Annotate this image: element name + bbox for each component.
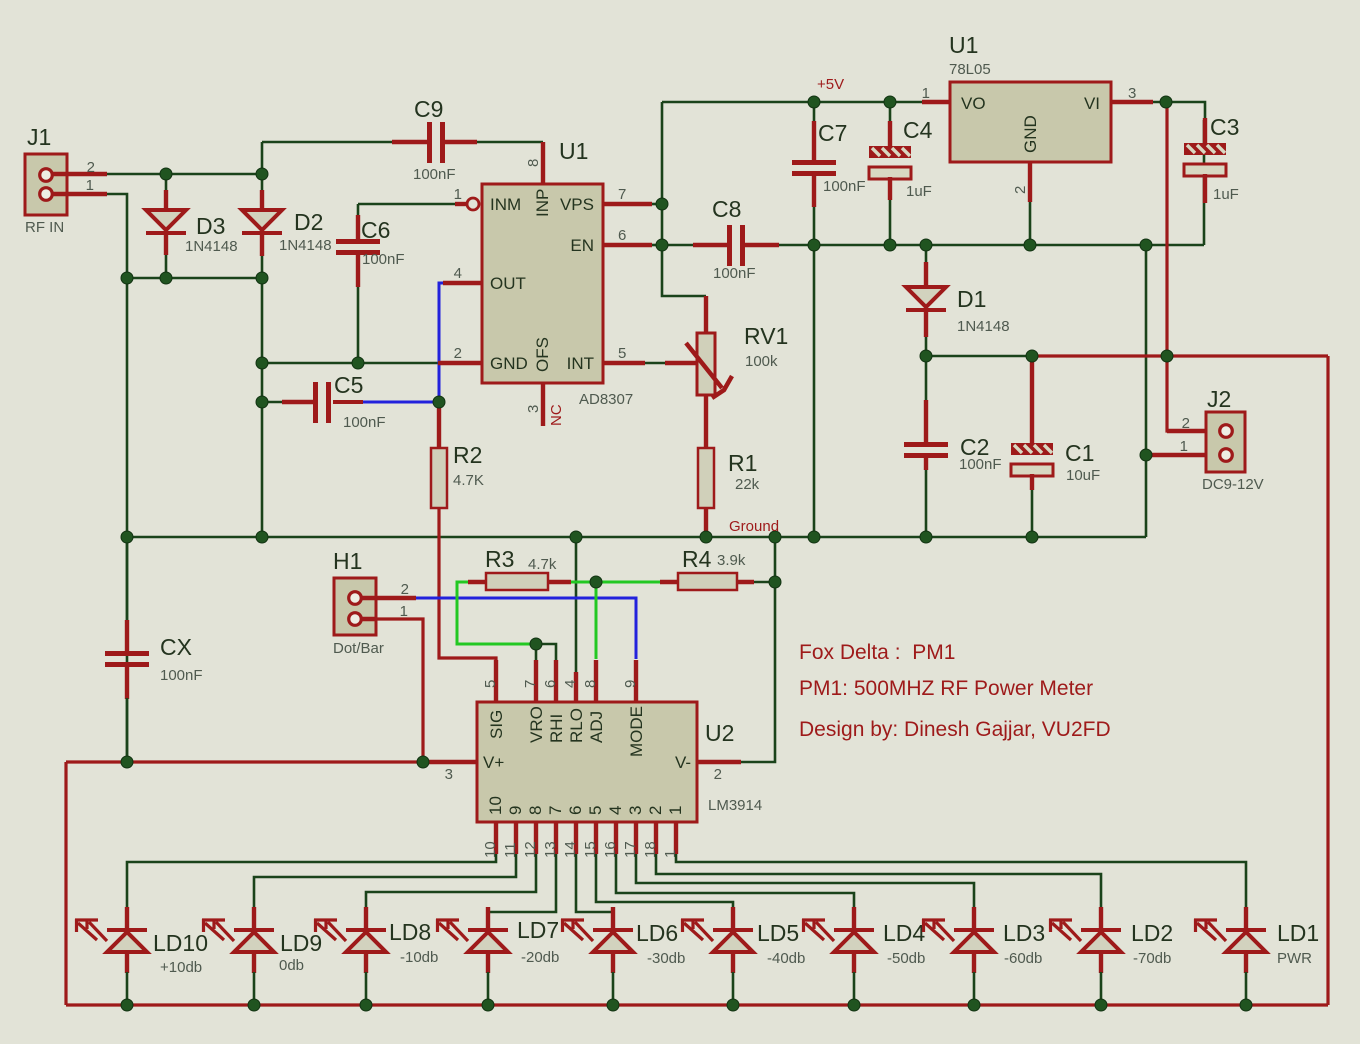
junction LED rail (613,1005) xyxy=(607,999,619,1011)
junction (127,762) xyxy=(121,756,133,768)
LD6 bottom lead xyxy=(611,952,615,973)
R3 left lead xyxy=(468,580,487,584)
wire LD7 to bottom rail xyxy=(487,972,490,1005)
junction (127,278) xyxy=(121,272,133,284)
capacitor C7 xyxy=(792,160,836,176)
U1 pin 1 lead xyxy=(455,202,466,206)
R4 left lead xyxy=(660,580,679,584)
svg-text:C9: C9 xyxy=(414,96,443,122)
78L05 pin 2 lead xyxy=(1028,162,1032,202)
D3 cathode lead xyxy=(164,233,168,255)
svg-text:100nF: 100nF xyxy=(362,251,405,268)
junction LED rail (488,1005) xyxy=(482,999,494,1011)
junction LED rail (1101,1005) xyxy=(1095,999,1107,1011)
LED LD1 xyxy=(1194,919,1266,952)
C7 bottom lead xyxy=(812,174,816,207)
svg-text:8: 8 xyxy=(525,159,542,167)
svg-text:GND: GND xyxy=(490,354,528,373)
RV1 wiper lead xyxy=(665,361,698,365)
C3 bottom lead xyxy=(1203,174,1207,203)
LD2 top lead xyxy=(1099,907,1103,930)
LED LD3 xyxy=(922,919,994,952)
svg-text:1: 1 xyxy=(454,186,462,203)
junction (706,537) xyxy=(700,531,712,543)
svg-text:J1: J1 xyxy=(27,124,51,150)
svg-text:LD2: LD2 xyxy=(1131,920,1173,946)
wire ADJ green drop xyxy=(595,582,598,659)
svg-text:5: 5 xyxy=(618,345,626,362)
svg-text:LD5: LD5 xyxy=(757,920,799,946)
RV1 wiper arrow xyxy=(686,343,732,398)
wire pin10 to LD10 xyxy=(127,854,496,908)
U2 bottom pin 11 lead xyxy=(514,822,518,854)
svg-text:VRO: VRO xyxy=(527,706,546,743)
svg-text:V+: V+ xyxy=(483,753,504,772)
CX top lead xyxy=(125,620,129,652)
svg-text:3: 3 xyxy=(445,766,453,783)
svg-text:DC9-12V: DC9-12V xyxy=(1202,476,1264,493)
svg-text:1N4148: 1N4148 xyxy=(279,237,332,254)
U2 V+ lead xyxy=(428,760,477,764)
wire CX top xyxy=(126,537,129,621)
wire H1 pin1 red drop xyxy=(376,619,423,762)
svg-text:1: 1 xyxy=(922,85,930,102)
svg-text:R4: R4 xyxy=(682,546,712,572)
junction (576,537) xyxy=(570,531,582,543)
svg-text:LD9: LD9 xyxy=(280,930,322,956)
svg-text:INP: INP xyxy=(533,189,552,217)
svg-text:10: 10 xyxy=(486,796,505,815)
wire D1 top stub xyxy=(925,245,928,263)
svg-text:2: 2 xyxy=(87,159,95,176)
wire C7 top stub xyxy=(813,102,816,122)
junction (127,537) xyxy=(121,531,133,543)
U1 pin 4 lead xyxy=(443,281,482,285)
wire +5V top rail xyxy=(662,101,922,104)
C3 top lead xyxy=(1203,118,1207,144)
U1 pin 1 bubble xyxy=(467,198,479,210)
svg-text:MODE: MODE xyxy=(627,706,646,757)
svg-text:1uF: 1uF xyxy=(1213,186,1239,203)
wire CX bottom xyxy=(126,698,129,763)
LD5 bottom lead xyxy=(731,952,735,973)
U2 V- lead xyxy=(697,760,741,764)
R1 top lead xyxy=(704,394,708,449)
wire C4 bottom stub xyxy=(889,199,892,245)
svg-text:3: 3 xyxy=(1128,85,1136,102)
wire pin17 to LD3 xyxy=(636,854,974,908)
wire J2 pin1 rail xyxy=(1145,245,1148,537)
svg-text:C5: C5 xyxy=(334,372,363,398)
wire VI to C3 node xyxy=(1152,102,1205,120)
junction (262,402) xyxy=(256,396,268,408)
RV1 top lead xyxy=(704,296,708,335)
wire U1 pin7 stub xyxy=(651,203,662,206)
junction (890,102) xyxy=(884,96,896,108)
junction LED rail (366,1005) xyxy=(360,999,372,1011)
capacitor CX xyxy=(105,651,149,667)
svg-text:LD8: LD8 xyxy=(389,919,431,945)
svg-text:U1: U1 xyxy=(559,138,588,164)
junction (814,245) xyxy=(808,239,820,251)
svg-text:4: 4 xyxy=(454,265,462,282)
H1 pin 2 lead xyxy=(360,596,416,600)
U2 top pin 4 lead xyxy=(574,672,578,702)
wire RLO to ground xyxy=(575,537,578,672)
svg-text:2: 2 xyxy=(646,806,665,815)
svg-text:RF IN: RF IN xyxy=(25,219,64,236)
svg-text:RHI: RHI xyxy=(547,714,566,743)
svg-text:PWR: PWR xyxy=(1277,950,1312,967)
wire D1 bottom stub xyxy=(925,336,928,356)
potentiometer RV1 body xyxy=(697,333,715,395)
svg-text:C8: C8 xyxy=(712,196,741,222)
wire pin12 to LD8 xyxy=(366,854,536,908)
junction (262,537) xyxy=(256,531,268,543)
R3 right lead xyxy=(548,580,571,584)
diode D2 xyxy=(242,210,282,233)
svg-text:C3: C3 xyxy=(1210,114,1239,140)
svg-text:-20db: -20db xyxy=(521,949,559,966)
U1 pin 5 lead xyxy=(603,361,645,365)
svg-text:ADJ: ADJ xyxy=(587,711,606,743)
bar-driver U2 LM3914 body xyxy=(477,702,697,822)
C5 left lead xyxy=(282,400,317,404)
diode D3 xyxy=(146,210,186,233)
wire V+ red row xyxy=(66,760,477,763)
svg-text:Fox Delta : PM1: Fox Delta : PM1 xyxy=(799,641,955,664)
wire red DC rail xyxy=(1032,354,1328,357)
U2 bottom pin 16 lead xyxy=(614,822,618,854)
junction (1167,356) xyxy=(1161,350,1173,362)
svg-text:6: 6 xyxy=(618,227,626,244)
C4 top lead xyxy=(888,121,892,147)
svg-text:LD10: LD10 xyxy=(153,930,208,956)
svg-text:R3: R3 xyxy=(485,546,514,572)
J1 pin 1 lead xyxy=(51,192,107,196)
regulator U1 78L05 body xyxy=(950,82,1111,162)
svg-text:PM1: 500MHZ RF Power Meter: PM1: 500MHZ RF Power Meter xyxy=(799,677,1093,700)
wire C6 bottom to GND row xyxy=(357,286,360,363)
wire C6 top corner xyxy=(357,204,360,216)
junction LED rail (733,1005) xyxy=(727,999,739,1011)
junction LED rail (1246,1005) xyxy=(1240,999,1252,1011)
svg-text:V-: V- xyxy=(675,753,691,772)
wire blue OUT vertical xyxy=(439,283,444,402)
wire C2 bottom stub xyxy=(925,469,928,537)
LD10 bottom lead xyxy=(125,952,129,973)
resistor R2 xyxy=(431,448,447,508)
D3 anode lead xyxy=(164,190,168,211)
svg-text:INT: INT xyxy=(567,354,594,373)
wire pin11 to LD9 xyxy=(254,854,516,908)
wire D1 to C2 run xyxy=(926,355,1032,358)
svg-text:3: 3 xyxy=(626,806,645,815)
svg-text:R2: R2 xyxy=(453,442,482,468)
junction (926,537) xyxy=(920,531,932,543)
svg-text:100nF: 100nF xyxy=(823,178,866,195)
capacitor C2 xyxy=(904,442,948,458)
wire D3 cathode stub xyxy=(165,254,168,278)
LED LD6 xyxy=(561,919,633,952)
C9 left lead xyxy=(392,140,428,144)
wire LD8 to bottom rail xyxy=(365,972,368,1005)
wire LD2 to bottom rail xyxy=(1100,972,1103,1005)
svg-text:7: 7 xyxy=(546,806,565,815)
wire V- up rail xyxy=(740,537,775,762)
svg-text:7: 7 xyxy=(618,186,626,203)
svg-text:7: 7 xyxy=(522,680,539,688)
wire pin14 to LD6 xyxy=(576,854,613,912)
svg-text:6: 6 xyxy=(566,806,585,815)
C4 bottom lead xyxy=(888,177,892,200)
capacitor C4 xyxy=(869,146,911,179)
wire LD10 to bottom rail xyxy=(126,972,129,1005)
U2 bottom pin 10 lead xyxy=(494,822,498,854)
wire LD9 to bottom rail xyxy=(253,972,256,1005)
svg-text:LM3914: LM3914 xyxy=(708,797,762,814)
wire LD5 to bottom rail xyxy=(732,972,735,1005)
D1 cathode lead xyxy=(924,310,928,337)
wire pin18 to LD2 xyxy=(656,854,1101,908)
LD6 top lead xyxy=(611,907,615,930)
LD9 top lead xyxy=(252,907,256,930)
capacitor C1 xyxy=(1011,443,1053,476)
svg-text:3: 3 xyxy=(525,405,542,413)
svg-text:LD3: LD3 xyxy=(1003,920,1045,946)
U2 bottom pin 18 lead xyxy=(654,822,658,854)
wire red left frame xyxy=(64,762,67,1005)
svg-text:100nF: 100nF xyxy=(160,667,203,684)
wire +5V vertical rail xyxy=(662,102,706,296)
wire D3 anode stub xyxy=(165,175,168,191)
wire C1 bottom stub xyxy=(1031,489,1034,537)
wire H1 pin2 blue xyxy=(415,598,636,659)
wire INM run xyxy=(358,203,464,206)
wire R3 right green xyxy=(570,581,596,584)
U2 top pin 7 lead xyxy=(534,660,538,702)
wire C9 to U1 pin8 xyxy=(476,141,543,144)
svg-text:2: 2 xyxy=(1012,186,1029,194)
78L05 pin 1 lead xyxy=(922,100,950,104)
junction (262,174) xyxy=(256,168,268,180)
svg-text:NC: NC xyxy=(548,404,565,426)
svg-text:3.9k: 3.9k xyxy=(717,552,746,569)
wire LD1 to bottom rail xyxy=(1245,972,1248,1005)
svg-text:R1: R1 xyxy=(728,450,757,476)
junction (775,537) xyxy=(769,531,781,543)
U2 top pin 9 lead xyxy=(634,660,638,702)
wire C4 top stub xyxy=(889,102,892,122)
C8 left lead xyxy=(693,243,728,247)
connector J2 xyxy=(1206,412,1245,472)
U1 pin 3 stub NC xyxy=(541,383,545,426)
svg-text:100nF: 100nF xyxy=(959,456,1002,473)
wire R3 left green loop xyxy=(457,582,536,644)
svg-text:1: 1 xyxy=(86,177,94,194)
U2 top pin 6 lead xyxy=(554,660,558,702)
J2 pin 2 lead xyxy=(1167,429,1206,433)
svg-text:100k: 100k xyxy=(745,353,778,370)
svg-text:-70db: -70db xyxy=(1133,950,1171,967)
svg-text:100nF: 100nF xyxy=(343,414,386,431)
connector J1 xyxy=(25,154,67,215)
wire pin15 to LD5 xyxy=(596,854,733,908)
svg-text:2: 2 xyxy=(401,581,409,598)
svg-text:2: 2 xyxy=(454,345,462,362)
junction (439,402) xyxy=(433,396,445,408)
D2 cathode lead xyxy=(260,233,264,256)
svg-text:H1: H1 xyxy=(333,548,362,574)
svg-text:VPS: VPS xyxy=(560,195,594,214)
wire red right frame xyxy=(1326,356,1329,1005)
wire R4 left green xyxy=(596,581,661,584)
connector H1 xyxy=(334,578,376,635)
svg-text:-50db: -50db xyxy=(887,950,925,967)
junction (662,204) xyxy=(656,198,668,210)
LD4 bottom lead xyxy=(852,952,856,973)
LD3 bottom lead xyxy=(972,952,976,973)
wire LD3 to bottom rail xyxy=(973,972,976,1005)
wire VRO-RHI link xyxy=(536,644,556,660)
junction (1032,356) xyxy=(1026,350,1038,362)
wire row under D3/D2 xyxy=(127,277,262,280)
C6 top lead xyxy=(356,215,360,240)
svg-text:1N4148: 1N4148 xyxy=(185,238,238,255)
C7 top lead xyxy=(812,121,816,161)
junction (1030,245) xyxy=(1024,239,1036,251)
junction LED rail (854,1005) xyxy=(848,999,860,1011)
svg-text:1uF: 1uF xyxy=(906,183,932,200)
C1 bottom lead xyxy=(1030,474,1034,490)
LD4 top lead xyxy=(852,907,856,930)
junction (926,245) xyxy=(920,239,932,251)
svg-text:4: 4 xyxy=(606,806,625,815)
svg-text:-30db: -30db xyxy=(647,950,685,967)
wire pin16 to LD4 xyxy=(616,854,854,908)
LED LD4 xyxy=(802,919,874,952)
svg-text:VO: VO xyxy=(961,94,986,113)
wire LD6 to bottom rail xyxy=(612,972,615,1005)
svg-text:D3: D3 xyxy=(196,213,225,239)
wire U1 pin6 stub xyxy=(651,244,662,247)
svg-text:C4: C4 xyxy=(903,117,933,143)
svg-text:4: 4 xyxy=(562,680,579,688)
junction (1146,455) xyxy=(1140,449,1152,461)
wire C3 drop xyxy=(1203,120,1206,245)
svg-text:100nF: 100nF xyxy=(413,166,456,183)
svg-text:-40db: -40db xyxy=(767,950,805,967)
svg-text:U1: U1 xyxy=(949,32,978,58)
LED LD10 xyxy=(75,919,147,952)
wire R4 right stub xyxy=(753,581,775,584)
diode D1 xyxy=(906,287,946,310)
U1 pin 8 lead xyxy=(541,142,545,185)
svg-text:2: 2 xyxy=(714,766,722,783)
svg-text:AD8307: AD8307 xyxy=(579,391,633,408)
wire D2 cathode down rail xyxy=(261,255,264,538)
junction (662,245) xyxy=(656,239,668,251)
capacitor C3 xyxy=(1184,143,1226,176)
svg-text:8: 8 xyxy=(582,680,599,688)
H1 pin 1 lead xyxy=(360,617,377,621)
R4 right lead xyxy=(737,580,754,584)
junction (926,356) xyxy=(920,350,932,362)
wire VRO drop xyxy=(535,644,538,660)
wire C7 bottom rail xyxy=(813,206,816,537)
svg-text:0db: 0db xyxy=(279,957,304,974)
junction (423,762) xyxy=(417,756,429,768)
junction LED rail (974,1005) xyxy=(968,999,980,1011)
junction (166,174) xyxy=(160,168,172,180)
U2 bottom pin 12 lead xyxy=(534,822,538,854)
CX bottom lead xyxy=(125,667,129,699)
wire pin13 to LD7 xyxy=(488,854,556,912)
svg-text:5: 5 xyxy=(586,806,605,815)
LED LD7 xyxy=(436,919,508,952)
wire red bottom LED rail xyxy=(66,1003,1328,1006)
D1 anode lead xyxy=(924,262,928,288)
LED LD5 xyxy=(681,919,753,952)
U1 pin 7 lead xyxy=(603,202,652,206)
svg-text:1: 1 xyxy=(1180,438,1188,455)
C2 bottom lead xyxy=(924,456,928,470)
resistor R4 xyxy=(678,573,737,590)
J1 pin 2 lead xyxy=(51,172,107,176)
LD3 top lead xyxy=(972,907,976,930)
wire C9 left rail xyxy=(261,142,264,191)
junction (1032,537) xyxy=(1026,531,1038,543)
wire R2 to SIG red xyxy=(439,508,496,702)
wire C8 right run xyxy=(778,244,1204,247)
svg-text:Dot/Bar: Dot/Bar xyxy=(333,640,384,657)
svg-text:10uF: 10uF xyxy=(1066,467,1100,484)
op-amp U1 AD8307 body xyxy=(482,184,603,383)
junction (1166,102) xyxy=(1160,96,1172,108)
svg-text:-60db: -60db xyxy=(1004,950,1042,967)
junction (814,102) xyxy=(808,96,820,108)
LED LD2 xyxy=(1049,919,1121,952)
wire C2 top stub xyxy=(925,356,928,401)
U2 bottom pin 1 lead xyxy=(674,822,678,854)
svg-text:CX: CX xyxy=(160,634,192,660)
LD8 top lead xyxy=(364,907,368,930)
capacitor C8 xyxy=(727,225,745,266)
svg-text:LD7: LD7 xyxy=(517,917,559,943)
resistor R1 xyxy=(698,448,714,508)
svg-text:D2: D2 xyxy=(294,209,323,235)
svg-text:U2: U2 xyxy=(705,720,734,746)
R1 bottom lead xyxy=(704,508,708,537)
wire 78L05 gnd stub xyxy=(1029,201,1032,245)
LD1 bottom lead xyxy=(1244,952,1248,973)
wire LD4 to bottom rail xyxy=(853,972,856,1005)
LED LD8 xyxy=(314,919,386,952)
svg-text:GND: GND xyxy=(1021,115,1040,153)
wire J1 pin1 down left rail xyxy=(106,194,127,763)
junction LED rail (127,1005) xyxy=(121,999,133,1011)
junction (814,537) xyxy=(808,531,820,543)
svg-text:9: 9 xyxy=(622,680,639,688)
U1 pin 2 lead xyxy=(438,361,482,365)
wire C5 to OUT node xyxy=(333,400,363,404)
junction (1146,245) xyxy=(1140,239,1152,251)
wire blue C5 node xyxy=(363,401,439,404)
LD1 top lead xyxy=(1244,907,1248,930)
svg-text:2: 2 xyxy=(1182,415,1190,432)
wire J1 pin2 to D3/D2 row xyxy=(104,173,262,176)
wire pin1 to LD1 xyxy=(676,854,1246,908)
